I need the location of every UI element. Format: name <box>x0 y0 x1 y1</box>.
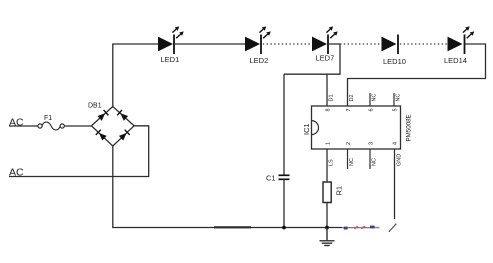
pin 1 number <box>326 142 332 145</box>
node AC bottom <box>9 167 24 179</box>
LED LED1 <box>158 26 184 64</box>
svg-text:DB1: DB1 <box>88 103 102 110</box>
svg-text:D2: D2 <box>349 94 355 101</box>
svg-text:NC: NC <box>372 94 378 102</box>
pin label D1 <box>329 94 335 101</box>
wire LED14 to pin D2 <box>348 44 486 106</box>
svg-text:LED1: LED1 <box>161 55 180 64</box>
wire ground rail thick part <box>214 226 251 228</box>
pin 4 GND wire <box>395 149 403 219</box>
svg-text:GND: GND <box>397 154 403 166</box>
pin 8 number <box>326 108 332 111</box>
pin 2 number <box>346 142 352 145</box>
svg-text:7: 7 <box>346 108 352 111</box>
wire <box>9 125 38 127</box>
svg-text:NC: NC <box>396 94 402 102</box>
pin 6 number <box>369 108 375 111</box>
wire GND hook <box>389 224 397 232</box>
pin 5 NC <box>394 93 402 106</box>
LED LED2 <box>245 26 271 65</box>
svg-text:NC: NC <box>372 158 378 166</box>
wire dotted <box>263 43 310 45</box>
wire <box>328 43 340 45</box>
LED LED10 <box>382 35 406 67</box>
svg-text:LED2: LED2 <box>250 56 269 65</box>
wire ground rail <box>112 227 342 229</box>
svg-text:LS: LS <box>329 159 335 166</box>
svg-text:NC: NC <box>349 158 355 166</box>
svg-text:R1: R1 <box>335 186 344 196</box>
svg-text:C1: C1 <box>266 174 276 183</box>
fuse F1 <box>38 115 64 130</box>
node AC top <box>9 117 24 129</box>
wire gray rail segment with edit marks <box>342 226 380 230</box>
wire LED7 tap down <box>284 44 340 74</box>
wire pin D1 <box>326 74 328 106</box>
LED LED7 <box>312 26 338 62</box>
wire dotted <box>400 43 448 45</box>
svg-text:3: 3 <box>369 142 375 145</box>
pin 6 NC <box>370 93 378 106</box>
pin 3 NC <box>370 149 378 169</box>
pin 5 number <box>393 108 399 111</box>
LED LED14 <box>444 26 474 64</box>
wire bridge top to LED rail <box>113 44 158 107</box>
pin 3 number <box>369 142 375 145</box>
wire R1 bottom <box>326 203 328 228</box>
wire bridge bottom <box>112 146 114 228</box>
svg-text:AC: AC <box>9 117 24 129</box>
junction R1 ground <box>325 226 329 230</box>
svg-text:1: 1 <box>326 142 332 145</box>
svg-text:D1: D1 <box>329 94 335 101</box>
capacitor C1 <box>266 174 290 183</box>
pin 4 number <box>393 142 399 145</box>
ground <box>320 228 335 246</box>
svg-text:2: 2 <box>346 142 352 145</box>
svg-text:4: 4 <box>393 142 399 145</box>
pin 1 LS wire <box>327 149 335 182</box>
wire C1 bottom <box>283 179 285 227</box>
svg-text:8: 8 <box>326 108 332 111</box>
wire C1 top <box>283 74 285 175</box>
svg-text:IC1: IC1 <box>302 123 311 135</box>
pin label D2 <box>349 94 355 101</box>
svg-text:5: 5 <box>393 108 399 111</box>
svg-text:6: 6 <box>369 108 375 111</box>
op-amp IC1 body <box>302 106 413 149</box>
bridge rectifier DB1 <box>88 103 134 147</box>
pin 7 number <box>346 108 352 111</box>
resistor R1 <box>323 182 344 203</box>
pin 2 NC <box>348 149 356 169</box>
svg-text:PM5008E: PM5008E <box>406 114 413 141</box>
wire AC bottom to bridge right <box>9 126 149 177</box>
wire dotted <box>340 43 382 45</box>
svg-text:LED7: LED7 <box>316 54 335 63</box>
svg-text:F1: F1 <box>44 115 52 122</box>
svg-text:LED14: LED14 <box>444 56 467 65</box>
svg-text:LED10: LED10 <box>383 57 406 66</box>
junction C1 <box>282 226 286 230</box>
wire <box>64 125 91 127</box>
wire <box>174 43 245 45</box>
